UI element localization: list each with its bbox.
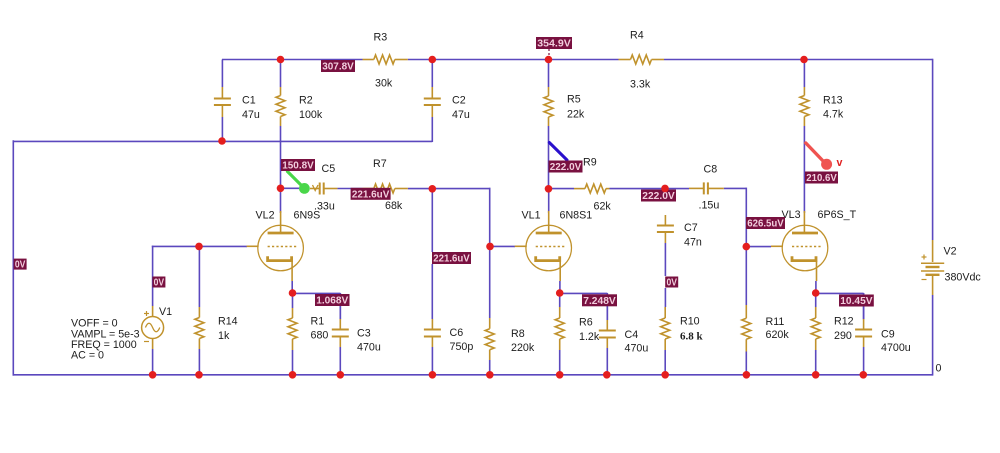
svg-text:VL1: VL1	[522, 210, 541, 222]
label R9	[583, 157, 611, 213]
label C4	[625, 329, 649, 355]
label V1	[159, 306, 172, 318]
wire R7 to node 221.6uV	[408, 188, 491, 190]
capacitor C9	[855, 293, 872, 376]
bias label 221.6uV at C6	[432, 252, 471, 265]
svg-text:290: 290	[834, 330, 852, 342]
svg-text:47u: 47u	[452, 109, 470, 121]
bias label 0V at V1	[152, 277, 165, 289]
svg-text:C6: C6	[450, 327, 464, 339]
bias label 626.5uV	[746, 217, 785, 230]
label R11	[766, 316, 790, 341]
svg-text:1.068V: 1.068V	[316, 296, 348, 307]
wire VL2 grid horizontal	[152, 245, 247, 247]
resistor R6	[555, 293, 564, 376]
svg-text:221.6uV: 221.6uV	[352, 189, 390, 200]
wire C6 column top	[431, 189, 433, 319]
wire VL1 cathode drop	[559, 281, 561, 294]
bias label 150.8V	[281, 159, 315, 172]
label C3	[357, 328, 381, 354]
svg-text:0V: 0V	[15, 260, 26, 271]
capacitor C5 polarity v	[313, 185, 319, 191]
label R8	[511, 328, 535, 354]
label VL2	[256, 210, 321, 222]
bias label 354.9V	[536, 37, 572, 50]
probe marker blue (VL1 anode)	[549, 143, 567, 161]
svg-text:470u: 470u	[357, 342, 381, 354]
source V2	[921, 240, 944, 295]
wire C7 to R10	[664, 243, 666, 307]
wire C8 to VL3 grid corner	[724, 187, 747, 189]
label VL3	[782, 209, 857, 221]
resistor R10	[661, 307, 670, 376]
wire VL2 cathode drop	[291, 281, 293, 294]
svg-text:7.248V: 7.248V	[583, 296, 616, 307]
label C2	[452, 95, 470, 122]
capacitor C8	[689, 182, 724, 194]
label C6	[450, 327, 474, 353]
svg-text:.15u: .15u	[699, 200, 720, 212]
label VL1	[522, 210, 593, 222]
svg-text:380Vdc: 380Vdc	[945, 272, 982, 284]
svg-text:10.45V: 10.45V	[840, 296, 873, 307]
label V1 params	[71, 318, 140, 362]
label C9	[881, 329, 911, 355]
svg-text:68k: 68k	[385, 200, 403, 212]
svg-text:0V: 0V	[154, 278, 165, 289]
wire V1 branch top	[152, 246, 154, 306]
resistor R8	[485, 318, 494, 376]
label C5	[314, 163, 335, 213]
resistor R12	[811, 293, 820, 376]
wire C1/C2 bottom bus y=141	[13, 140, 433, 142]
wire R5 column	[548, 60, 550, 189]
resistor R14	[195, 307, 204, 376]
svg-text:C9: C9	[881, 329, 895, 341]
svg-text:307.8V: 307.8V	[322, 62, 354, 73]
svg-text:6P6S_T: 6P6S_T	[818, 209, 857, 221]
resistor R1	[288, 293, 297, 376]
wire R8 drop	[489, 246, 491, 318]
probe marker red (VL3 anode)	[806, 143, 832, 170]
bias label 0V at R10	[665, 277, 678, 289]
svg-text:R3: R3	[374, 32, 388, 44]
wire VL1 anode stub	[548, 189, 550, 213]
svg-text:680: 680	[311, 330, 329, 342]
bias label 0V left rail	[14, 259, 27, 271]
svg-text:C3: C3	[357, 328, 371, 340]
wire VL3 cathode to C9	[816, 293, 864, 319]
resistor R4	[619, 55, 665, 64]
label V2	[944, 246, 982, 284]
wire VL1 grid horizontal	[489, 245, 515, 247]
svg-text:VL2: VL2	[256, 210, 275, 222]
resistor R11	[742, 305, 751, 376]
capacitor C7	[657, 215, 674, 243]
label R12	[834, 316, 854, 343]
svg-text:R6: R6	[579, 317, 593, 329]
capacitor C1	[214, 60, 231, 143]
wire left rail	[12, 140, 14, 375]
wire bottom ground rail	[13, 374, 933, 376]
capacitor C2	[424, 60, 441, 143]
capacitor C3	[332, 293, 349, 376]
svg-text:R9: R9	[583, 157, 597, 169]
svg-text:3.3k: 3.3k	[630, 79, 651, 91]
label R1	[311, 316, 329, 342]
label R2	[299, 95, 323, 122]
bias label 221.6uV at R7	[351, 188, 391, 201]
wire node down to VL1 grid corner	[489, 188, 491, 247]
svg-text:47n: 47n	[684, 237, 702, 249]
probe marker green (VL2 anode)	[288, 172, 310, 194]
svg-text:22k: 22k	[567, 109, 585, 121]
wire VL1 cathode to C4	[560, 293, 608, 320]
svg-text:C5: C5	[322, 163, 336, 175]
svg-text:6N8S1: 6N8S1	[560, 210, 593, 222]
capacitor C6	[424, 319, 441, 376]
svg-text:AC = 0: AC = 0	[71, 350, 104, 362]
svg-text:C7: C7	[684, 222, 698, 234]
svg-text:C4: C4	[625, 329, 639, 341]
label R6	[579, 317, 600, 344]
resistor R7	[363, 184, 408, 193]
capacitor C4	[599, 293, 616, 376]
wire R14 drop	[198, 246, 200, 307]
label C1	[242, 95, 260, 122]
svg-text:R12: R12	[834, 316, 854, 328]
svg-text:100k: 100k	[299, 109, 323, 121]
svg-text:221.6uV: 221.6uV	[433, 254, 470, 265]
label R4	[630, 30, 651, 91]
svg-text:0: 0	[936, 363, 942, 375]
svg-text:47u: 47u	[242, 109, 260, 121]
wire corner down to VL3 grid	[745, 188, 747, 247]
bias label 7.248V	[582, 294, 617, 307]
svg-text:0V: 0V	[666, 278, 677, 289]
svg-text:C1: C1	[242, 95, 256, 107]
label probe v red	[837, 157, 843, 169]
svg-text:v: v	[837, 157, 843, 169]
svg-text:C8: C8	[704, 164, 718, 176]
resistor R3	[363, 55, 408, 64]
label R10	[680, 316, 704, 343]
svg-text:220k: 220k	[511, 342, 535, 354]
resistor R2	[276, 87, 285, 126]
wire top supply rail	[222, 59, 933, 61]
wire R9 out	[549, 188, 575, 190]
bias label 354.9V dashed lead	[548, 49, 550, 58]
label ground node 0	[936, 363, 942, 375]
wire C5 to R7	[337, 188, 362, 190]
wire V2 to bottom right corner	[932, 295, 934, 376]
wire C7 node to C8	[665, 188, 689, 190]
label C8	[699, 164, 720, 212]
wire R11 drop	[745, 247, 747, 305]
bias label 210.6V	[805, 172, 838, 185]
bias label 10.45V	[839, 295, 874, 308]
wire VL3 grid horizontal	[746, 246, 772, 248]
triode VL2	[247, 211, 304, 281]
svg-text:6.8 k: 6.8 k	[680, 330, 704, 342]
bias label 307.8V	[321, 60, 355, 73]
svg-text:626.5uV: 626.5uV	[747, 219, 784, 230]
svg-text:150.8V: 150.8V	[282, 161, 314, 172]
svg-text:1k: 1k	[218, 330, 230, 342]
label R14	[218, 316, 238, 343]
svg-text:R10: R10	[680, 316, 700, 328]
pentode VL3	[771, 211, 828, 281]
triode VL1	[515, 211, 572, 281]
label C7	[684, 222, 702, 249]
wire VL2 anode node to C5	[281, 187, 300, 189]
svg-text:4.7k: 4.7k	[823, 109, 844, 121]
svg-text:R14: R14	[218, 316, 238, 328]
capacitor C5	[310, 183, 337, 195]
source V1	[142, 306, 164, 349]
bias label 222.0V at R5	[549, 161, 583, 174]
wire R9 to C7 node	[610, 188, 666, 190]
svg-text:C2: C2	[452, 95, 466, 107]
svg-text:222.0V: 222.0V	[642, 191, 675, 202]
svg-text:R5: R5	[567, 94, 581, 106]
wire R2 column	[280, 60, 282, 214]
svg-text:R8: R8	[511, 328, 525, 340]
svg-text:R11: R11	[766, 316, 785, 328]
wire right rail to V2	[932, 59, 934, 240]
label R3	[374, 32, 393, 90]
svg-text:1.2k: 1.2k	[579, 331, 600, 343]
svg-text:30k: 30k	[375, 78, 393, 90]
bias label 1.068V	[315, 294, 350, 307]
svg-text:354.9V: 354.9V	[537, 39, 571, 50]
wire VL3 cathode drop	[815, 281, 817, 294]
svg-text:210.6V: 210.6V	[806, 173, 837, 184]
svg-text:R1: R1	[311, 316, 325, 328]
svg-text:R7: R7	[373, 158, 387, 170]
wire R13 column	[803, 60, 805, 214]
svg-text:R2: R2	[299, 95, 313, 107]
svg-text:750p: 750p	[450, 341, 474, 353]
label R5	[567, 94, 585, 121]
wire VL2 cathode to C3	[293, 293, 341, 319]
svg-text:R13: R13	[823, 95, 843, 107]
resistor R5	[544, 87, 553, 126]
resistor R9	[574, 184, 610, 193]
svg-text:4700u: 4700u	[881, 342, 911, 354]
svg-text:222.0V: 222.0V	[550, 162, 582, 173]
svg-text:6N9S: 6N9S	[294, 210, 321, 222]
bias label 222.0V at C7	[641, 190, 676, 203]
resistor R13	[800, 87, 809, 126]
svg-text:470u: 470u	[625, 343, 649, 355]
svg-text:V2: V2	[944, 246, 957, 258]
svg-text:V1: V1	[159, 306, 172, 318]
label R13	[823, 95, 844, 121]
svg-text:620k: 620k	[766, 329, 790, 341]
svg-text:62k: 62k	[594, 201, 612, 213]
label R7	[373, 158, 403, 212]
wire V1 bottom	[152, 349, 154, 376]
svg-text:R4: R4	[630, 30, 644, 42]
